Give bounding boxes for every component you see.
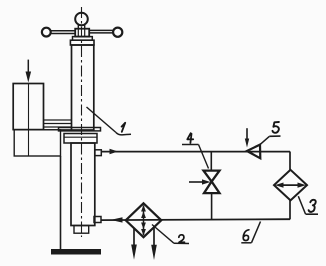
support leg bbox=[60, 156, 62, 249]
label 1 leader bbox=[87, 107, 117, 133]
cylinder foot bbox=[74, 226, 89, 234]
cooler 2 diamond bbox=[126, 203, 162, 237]
label 4 digit bbox=[187, 133, 193, 143]
inlet port (bottom) bbox=[94, 217, 101, 223]
handle bar left bbox=[51, 31, 77, 34]
handle right ball bbox=[113, 28, 122, 37]
lower-left block bbox=[14, 130, 60, 156]
check valve 5 triangle bbox=[247, 145, 260, 159]
bottom pipe flow arrow bbox=[111, 217, 123, 222]
hub inner stem lines bbox=[77, 29, 79, 37]
centerline of press (dash-dot) bbox=[81, 7, 83, 237]
shelf line bbox=[13, 129, 71, 131]
outlet port (top) bbox=[95, 150, 102, 156]
cylinder upper body bbox=[72, 45, 94, 130]
valve V4 bowtie bbox=[204, 171, 220, 194]
handwheel hub bbox=[75, 29, 89, 37]
lower flange inner line bbox=[64, 136, 97, 138]
handle bar right bbox=[89, 30, 114, 33]
injection arrow above valve 5 bbox=[246, 128, 248, 140]
handle left ball bbox=[42, 28, 51, 37]
cooler 2 drain right bbox=[153, 227, 155, 246]
cooler 2 vertical double arrow bbox=[143, 206, 145, 236]
cylinder lower body bbox=[71, 143, 95, 226]
label 1 digit bbox=[122, 123, 126, 132]
handwheel stem neck bbox=[78, 25, 84, 28]
lower flange plate bbox=[64, 134, 97, 144]
right riser pipe bbox=[289, 152, 291, 171]
label 5 digit bbox=[273, 122, 279, 133]
label 4 leader bbox=[199, 145, 209, 169]
bottom pipe (return line) bbox=[101, 218, 290, 221]
hopper inner feed line bbox=[28, 84, 30, 156]
label 3 digit bbox=[309, 200, 316, 212]
feed arrow into hopper bbox=[26, 60, 32, 83]
label 6 leader bbox=[252, 222, 261, 243]
label 5 leader bbox=[260, 136, 269, 144]
bonnet flange bbox=[73, 37, 93, 41]
upper flange plate bbox=[59, 128, 101, 131]
handwheel top ball bbox=[75, 13, 88, 26]
valve V4 actuator arrow bbox=[189, 181, 203, 183]
label 2 digit bbox=[179, 235, 185, 243]
label 2 leader bbox=[152, 225, 174, 244]
top pipe flow arrow bbox=[110, 149, 119, 154]
heat exchanger 3 diamond bbox=[274, 170, 307, 201]
base plate (filled) bbox=[51, 249, 101, 255]
top pipe (outlet line) bbox=[101, 151, 290, 153]
hopper box bbox=[13, 84, 43, 130]
cylinder top cap bbox=[70, 40, 94, 45]
cooler 2 drain left bbox=[133, 228, 135, 246]
label 6 digit bbox=[243, 230, 249, 241]
label 3 leader bbox=[298, 196, 305, 214]
valve 4 branch pipe bbox=[210, 152, 212, 171]
connector bands hopper to cylinder bbox=[44, 120, 72, 127]
heat exchanger 3 double arrow bbox=[279, 184, 302, 186]
